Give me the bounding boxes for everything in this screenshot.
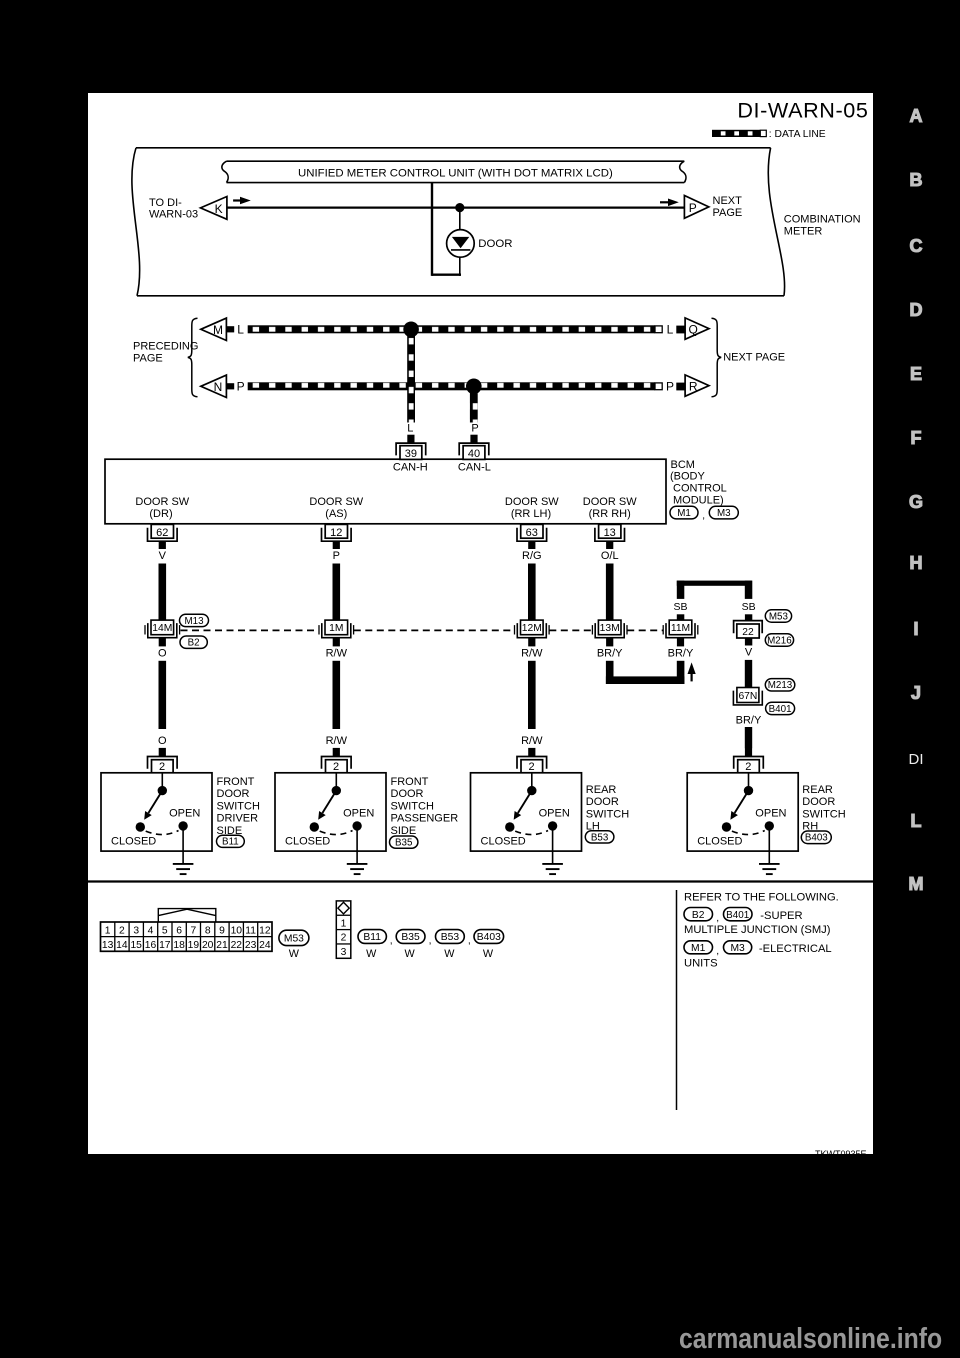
svg-text:SB: SB [742,601,756,613]
svg-text:FRONT: FRONT [217,776,255,788]
svg-text:MULTIPLE JUNCTION (SMJ): MULTIPLE JUNCTION (SMJ) [684,924,831,936]
svg-text:P: P [689,201,697,215]
wire O/L chain4 [606,564,614,621]
svg-text:SIDE: SIDE [391,825,417,837]
svg-text:NEXT: NEXT [713,195,743,207]
switch S4 rear door switch RH with ground [687,773,798,874]
connector pin 62 [148,524,178,549]
wire R/W chain2 lower [333,661,341,729]
svg-text:B11: B11 [222,837,239,848]
dashed SMJ line segment 4 [627,629,663,631]
wire BR/Y elbow chain4 [606,661,685,684]
svg-text:M13: M13 [184,616,204,627]
svg-text:(RR LH): (RR LH) [511,508,551,520]
connector ref oval M3 legend [724,941,752,954]
svg-text:M: M [213,323,223,337]
label TO DI-WARN-03 [149,197,198,221]
connector R triangle [685,375,709,396]
wire stub N [227,383,235,389]
connector pin 63 [517,524,547,549]
svg-text:5: 5 [162,926,168,937]
wire stub Q [676,326,685,334]
node junction dot CAN-H [403,322,419,338]
svg-text:24: 24 [259,940,271,951]
svg-text:4: 4 [148,926,154,937]
svg-text:M53: M53 [284,934,304,945]
svg-text:22: 22 [742,627,754,638]
svg-text:DOOR: DOOR [586,796,619,808]
svg-text:B11: B11 [363,932,381,943]
svg-text:6: 6 [176,926,182,937]
svg-text:13: 13 [604,527,616,539]
svg-text:15: 15 [130,940,142,951]
svg-text:(RR RH): (RR RH) [589,508,631,520]
node junction dot CAN-L [466,379,482,395]
label FRONT DOOR SWITCH DRIVER SIDE [217,776,260,837]
sidebar index letters [889,107,943,125]
svg-text:WARN-03: WARN-03 [149,209,198,221]
brace right next page [712,318,722,397]
svg-text:W: W [289,948,300,960]
connector pin 2 switch1 [148,748,178,773]
wire data line CAN-L [248,382,663,390]
svg-text:W: W [483,948,494,960]
connector ref oval B403 [801,831,831,844]
connector ref oval B35 [390,836,418,849]
wire stub M [227,326,235,332]
svg-text:,: , [716,946,719,957]
svg-text:M53: M53 [769,611,789,622]
connector 22 [734,621,763,638]
label BCM (BODY CONTROL MODULE) [670,459,727,507]
connector 1M [319,620,354,646]
svg-text:BR/Y: BR/Y [597,647,623,659]
svg-text:O: O [158,647,167,659]
svg-text:SWITCH: SWITCH [217,800,260,812]
svg-text:TKWT0935E: TKWT0935E [815,1149,867,1154]
legend data line sample [712,129,826,140]
svg-text:REFER TO THE FOLLOWING.: REFER TO THE FOLLOWING. [684,891,839,903]
wire V chain1 [159,564,167,621]
svg-text:2: 2 [341,933,347,944]
connector ref oval M216 [765,634,793,647]
connector P triangle [684,196,708,219]
svg-text:39: 39 [405,448,417,460]
svg-text:DOOR SW: DOOR SW [583,496,637,508]
svg-text:M216: M216 [767,635,792,646]
svg-text:9: 9 [219,926,225,937]
svg-text:,: , [390,935,393,946]
svg-text:L: L [407,423,413,435]
connector ref oval B2 legend [684,908,719,925]
dashed SMJ line segment 2 [354,629,515,631]
svg-text:B2: B2 [692,910,705,921]
svg-text:O: O [158,735,167,747]
svg-text:,: , [429,935,432,946]
connector face M53 24-pin grid [101,909,273,952]
svg-text:11: 11 [245,926,256,937]
svg-text:DOOR SW: DOOR SW [309,496,363,508]
connector pin 2 switch3 [517,748,547,773]
svg-text:14M: 14M [152,623,172,634]
connector ref oval M3 [709,506,738,519]
connector 13M [592,620,627,646]
svg-text:13M: 13M [600,623,620,634]
svg-text:SWITCH: SWITCH [586,808,629,820]
svg-text:3: 3 [133,926,139,937]
connector ref oval M1 legend [684,941,719,957]
svg-text:11M: 11M [671,623,690,634]
combination meter outline [132,148,785,296]
label REAR DOOR SWITCH RH [802,784,845,833]
switch S3 rear door switch LH with ground [471,773,582,874]
svg-text:R/W: R/W [326,735,348,747]
connector N triangle [201,375,227,397]
svg-text:8: 8 [205,926,211,937]
svg-text:PAGE: PAGE [133,353,163,365]
connector ref oval B11 [217,835,245,848]
svg-text:V: V [745,646,753,658]
connector ref oval B401 [766,702,795,715]
svg-text:17: 17 [159,940,171,951]
wire stub R [676,383,685,391]
svg-text:PASSENGER: PASSENGER [391,813,459,825]
combination meter label [784,214,861,238]
svg-text:67N: 67N [738,691,757,702]
svg-text:10: 10 [231,926,243,937]
connector ref oval B2 [180,636,207,649]
connector K triangle [201,197,227,220]
svg-text:DI-WARN-05: DI-WARN-05 [737,98,868,123]
svg-text:12: 12 [259,926,271,937]
wire R/G chain3 [528,564,536,621]
wire O chain1 lower [159,661,167,729]
svg-text:1: 1 [105,926,111,937]
wire SMJ bridge 11M to 22 [677,581,753,599]
connector ref oval M1 [670,506,705,521]
svg-text:DOOR: DOOR [478,238,512,250]
svg-text:METER: METER [784,226,823,238]
svg-text:COMBINATION: COMBINATION [784,214,861,226]
svg-text:Q: Q [689,322,698,336]
label DOOR SW (RR RH) [583,496,637,520]
svg-text:M3: M3 [730,943,745,954]
switch S2 front door switch passenger side with ground [275,773,386,874]
connector pin 2 switch4 [734,748,764,773]
svg-text:R/W: R/W [521,735,543,747]
wire P chain2 [333,564,341,621]
switch S1 front door switch driver side with ground [101,773,212,874]
svg-text:P: P [333,550,340,562]
dashed SMJ line segment 1 [181,629,319,631]
wire stub above 22 [745,614,752,620]
arrow direction marker right of K [233,197,251,205]
connector 67N [733,688,762,705]
svg-text:DOOR SW: DOOR SW [505,496,559,508]
svg-text:B401: B401 [769,704,792,715]
connector Q triangle [685,318,709,339]
svg-text:M1: M1 [691,943,706,954]
svg-text:12: 12 [330,527,342,539]
svg-text:UNITS: UNITS [684,958,718,970]
svg-text:SB: SB [673,601,687,613]
svg-text:BR/Y: BR/Y [668,647,694,659]
svg-text:12M: 12M [522,623,542,634]
connector pin 2 switch2 [322,748,352,773]
svg-text:P: P [471,423,478,435]
svg-text:63: 63 [526,527,538,539]
connector ref oval B401 legend [724,908,753,921]
wire stub below 22 [745,638,752,646]
svg-text:40: 40 [468,448,480,460]
svg-text:PAGE: PAGE [713,207,743,219]
svg-text:CAN-H: CAN-H [393,461,428,473]
wire main meter bus [227,206,685,208]
svg-text:: DATA LINE: : DATA LINE [769,129,826,140]
arrow direction marker before P [660,199,679,207]
svg-text:B401: B401 [726,910,750,921]
svg-text:L: L [237,323,244,337]
svg-text:DOOR: DOOR [802,796,835,808]
wire stub above 11M [677,614,685,620]
connector ref oval M53 bottom [279,930,309,945]
connector M triangle [201,318,227,340]
svg-text:22: 22 [231,940,243,951]
label DOOR SW (DR) [135,496,189,520]
brace left preceding page [188,318,198,397]
connector pin 40 [459,435,489,460]
label DOOR SW (AS) [309,496,363,520]
svg-text:SWITCH: SWITCH [802,808,845,820]
connector pin 13 [595,524,625,549]
svg-text:M3: M3 [717,508,731,519]
connector ref oval B53 [585,831,614,844]
wire vertical data drop CAN-L [470,390,478,423]
svg-text:MODULE): MODULE) [673,495,724,507]
svg-text:SWITCH: SWITCH [391,800,434,812]
svg-text:N: N [214,380,223,394]
svg-text:(AS): (AS) [325,508,347,520]
lamp DOOR indicator [447,230,475,258]
svg-text:B403: B403 [477,932,501,943]
svg-text:16: 16 [145,940,157,951]
refer block divider line [676,890,678,1110]
svg-text:19: 19 [188,940,200,951]
svg-text:P: P [237,380,245,394]
svg-text:62: 62 [156,527,168,539]
svg-text:P: P [666,380,674,394]
svg-text:21: 21 [216,940,228,951]
svg-text:20: 20 [202,940,214,951]
svg-text:1: 1 [341,918,347,929]
connector face B11 3-pin strip [336,901,351,958]
svg-text:B53: B53 [591,832,609,843]
svg-text:(BODY: (BODY [670,471,706,483]
svg-text:(DR): (DR) [149,508,172,520]
connector ref oval B11 bottom [358,930,393,947]
label FRONT DOOR SWITCH PASSENGER SIDE [391,776,459,837]
svg-text:O/L: O/L [601,550,619,562]
svg-text:7: 7 [191,926,197,937]
wire V to 67N [745,660,752,688]
svg-text:R/G: R/G [522,550,542,562]
svg-text:DOOR SW: DOOR SW [135,496,189,508]
connector ref oval B53 bottom [436,930,471,947]
svg-text:1M: 1M [329,623,343,634]
svg-text:R/W: R/W [521,647,543,659]
wire lamp anode [459,208,461,231]
svg-text:B2: B2 [188,638,200,649]
label REAR DOOR SWITCH LH [586,784,629,833]
svg-text:-SUPER: -SUPER [760,910,802,922]
watermark [679,1323,942,1356]
svg-text:W: W [366,948,377,960]
node junction dot on meter bus [455,203,464,212]
svg-text:REAR: REAR [802,784,833,796]
svg-text:FRONT: FRONT [391,776,429,788]
svg-text:,: , [716,913,719,924]
label PRECEDING PAGE [133,341,198,365]
connector ref oval M13 [180,614,209,627]
svg-text:R: R [689,379,698,393]
svg-text:CAN-L: CAN-L [458,461,491,473]
svg-text:B53: B53 [441,932,460,943]
svg-text:R/W: R/W [326,647,348,659]
connector ref oval B403 bottom [474,930,504,944]
wire R/W chain3 lower [528,661,536,729]
dashed SMJ line segment 3 [549,629,592,631]
connector 14M [145,620,180,646]
connector 12M [515,620,550,646]
svg-text:18: 18 [173,940,185,951]
connector ref oval B35 bottom [396,930,431,947]
arrow direction marker up into 11M [688,662,696,681]
BCM body control module box [105,459,666,524]
svg-text:BCM: BCM [671,459,695,471]
connector 11M [663,620,698,646]
title DI-WARN-05 [737,98,868,123]
label NEXT PAGE top [713,195,743,219]
label DOOR SW (RR LH) [505,496,559,520]
svg-text:PRECEDING: PRECEDING [133,341,198,353]
svg-text:14: 14 [116,940,128,951]
svg-text:K: K [215,202,223,216]
svg-text:W: W [404,948,415,960]
wire BR/Y to switch RH [745,727,752,748]
svg-text:B403: B403 [805,833,828,844]
connector ref oval M53 [765,610,791,623]
svg-text:UNIFIED METER CONTROL UNIT (WI: UNIFIED METER CONTROL UNIT (WITH DOT MAT… [298,168,613,180]
unified meter control unit box U1 [222,161,686,182]
svg-text:DOOR: DOOR [391,788,424,800]
svg-text:L: L [667,323,674,337]
svg-text:V: V [159,550,167,562]
connector pin 12 [322,524,352,549]
separator line [88,880,873,882]
svg-text:B35: B35 [401,932,420,943]
svg-text:M213: M213 [768,680,793,691]
svg-text:BR/Y: BR/Y [736,714,762,726]
svg-text:13: 13 [102,940,114,951]
svg-text:23: 23 [245,940,257,951]
svg-text:NEXT PAGE: NEXT PAGE [723,352,785,364]
svg-text:DRIVER: DRIVER [217,813,259,825]
svg-text:2: 2 [119,926,125,937]
connector pin 39 [396,435,426,460]
svg-text:,: , [702,511,705,522]
wire data line CAN-H [248,325,663,333]
svg-text:CONTROL: CONTROL [673,483,727,495]
connector ref oval M213 [765,679,795,692]
svg-text:REAR: REAR [586,784,617,796]
wire vertical data drop CAN-H [407,333,415,423]
svg-text:TO DI-: TO DI- [149,197,182,209]
svg-text:B35: B35 [395,838,413,849]
svg-text:W: W [444,948,455,960]
svg-text:,: , [468,935,471,946]
svg-text:-ELECTRICAL: -ELECTRICAL [759,943,832,955]
wire lamp cathode loop [432,183,461,276]
svg-text:M1: M1 [677,508,691,519]
svg-text:DOOR: DOOR [217,788,250,800]
svg-text:3: 3 [341,947,347,958]
